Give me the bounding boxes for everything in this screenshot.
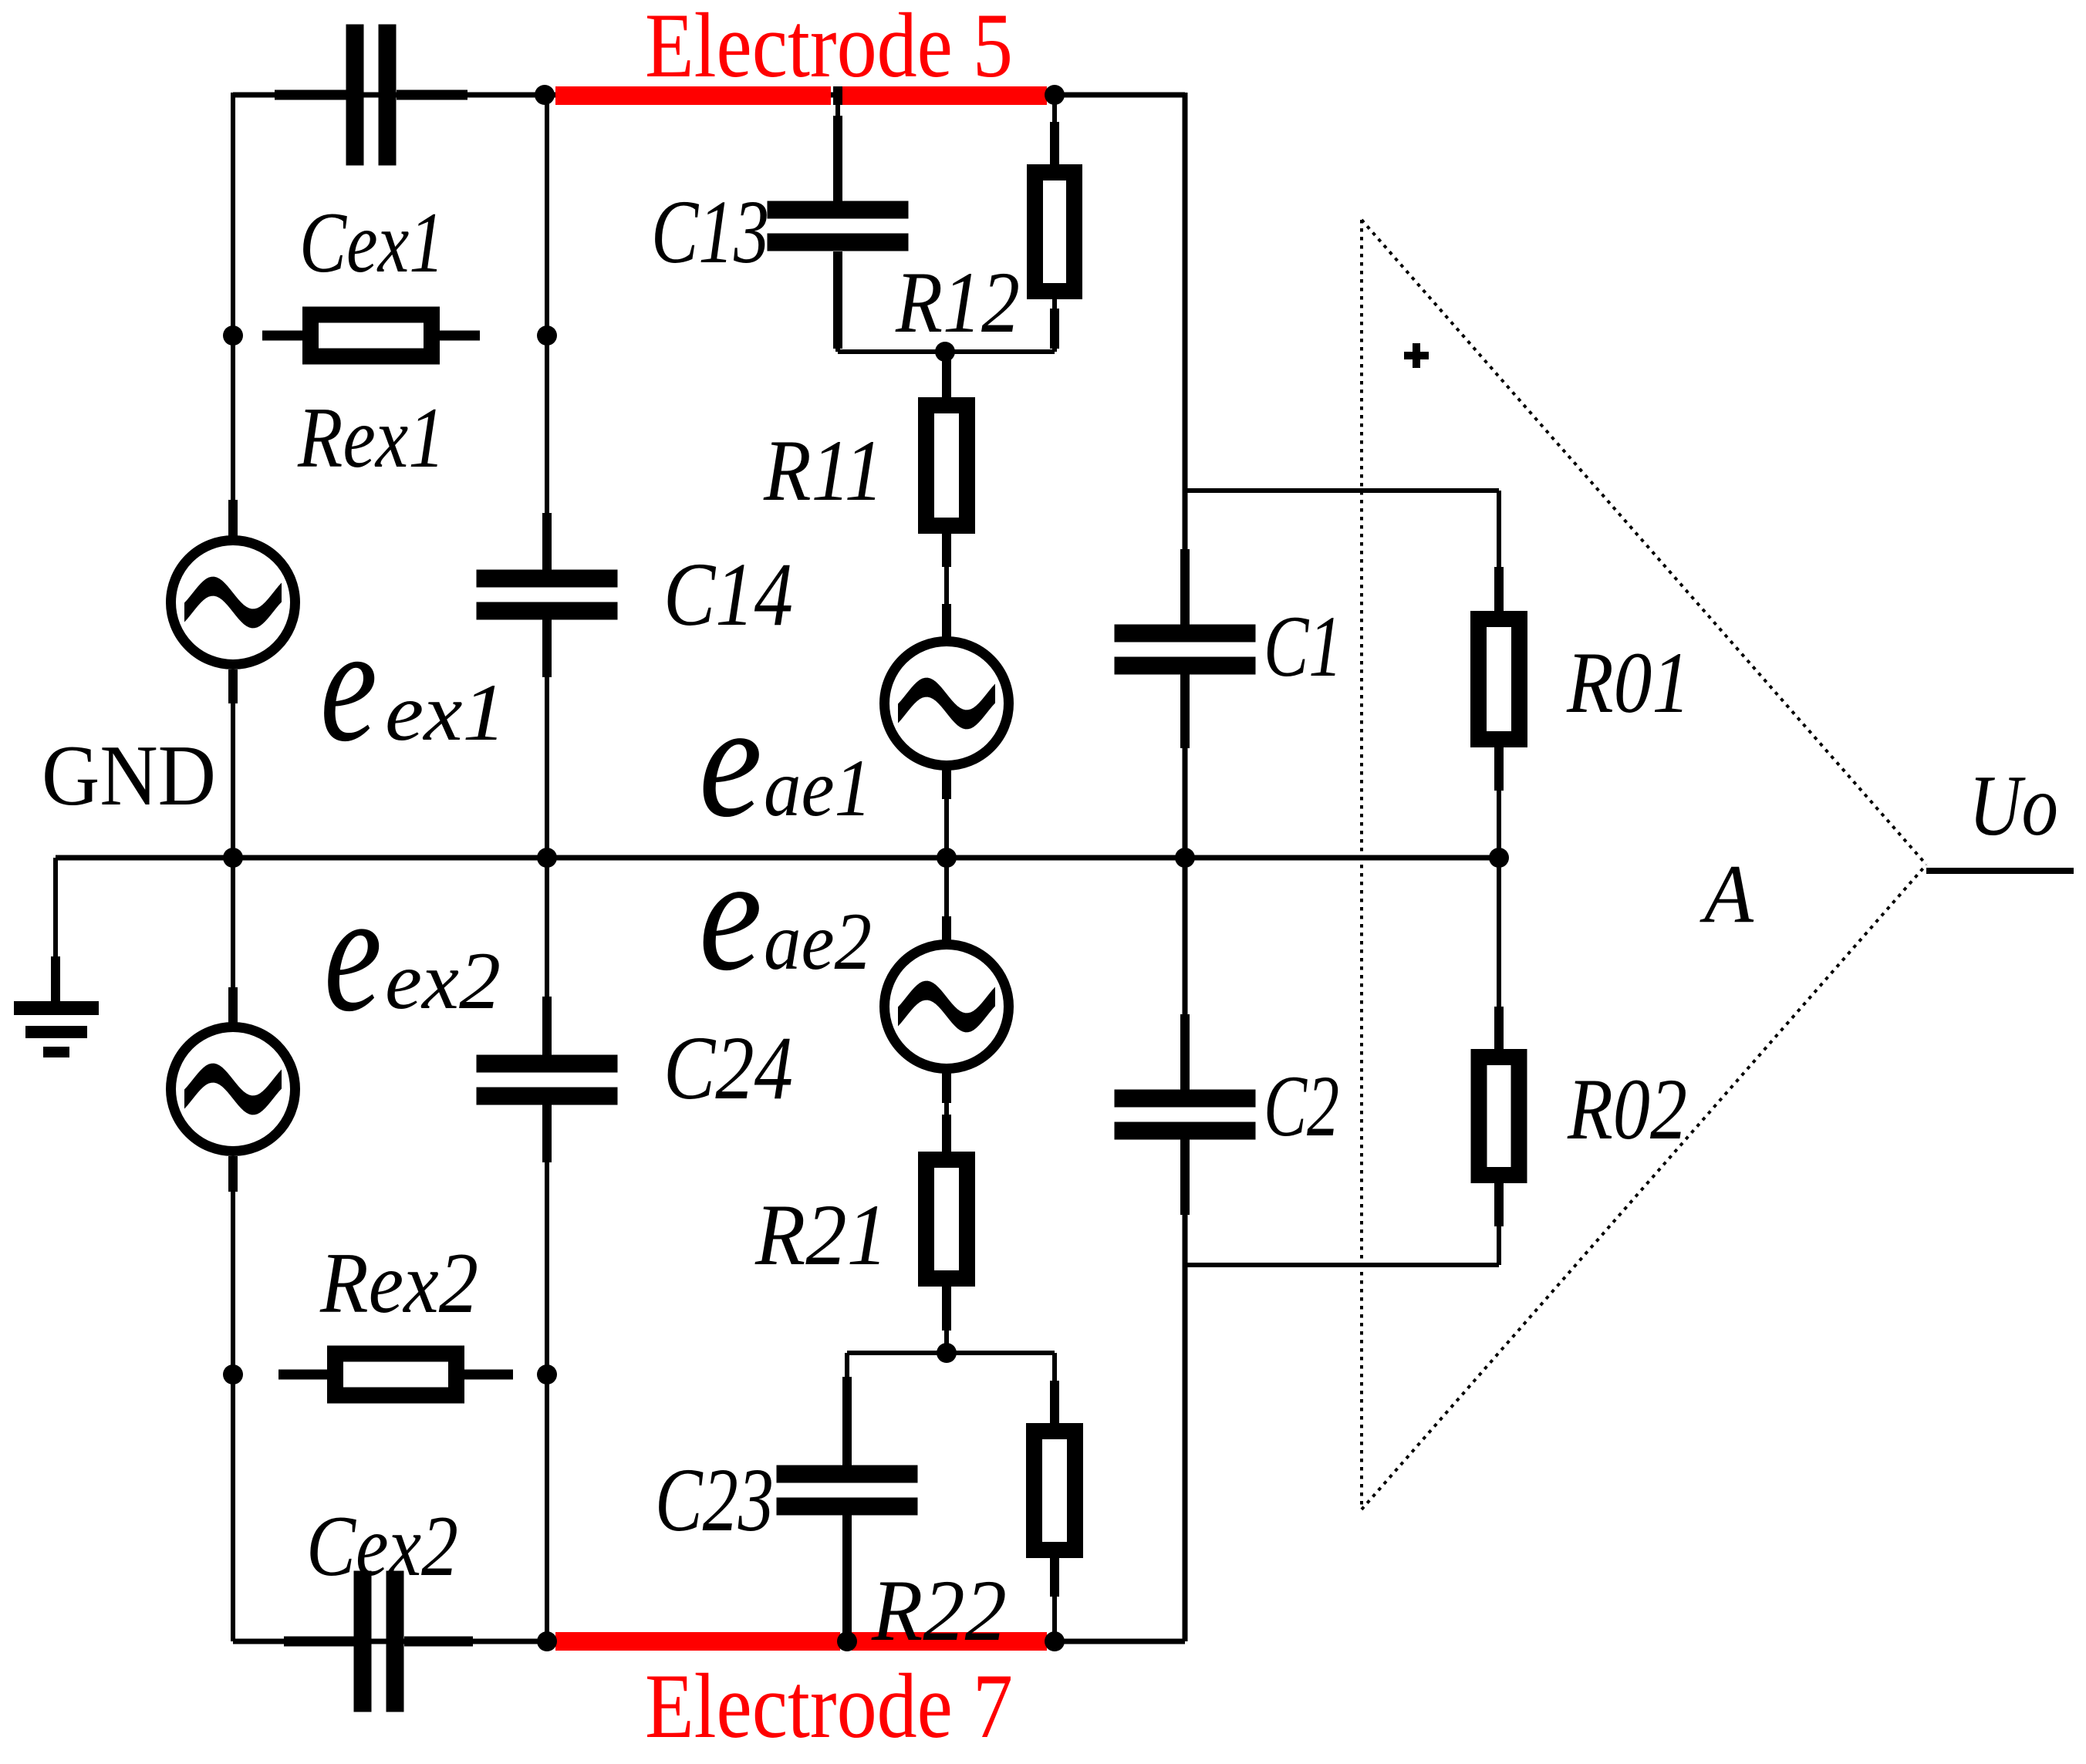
svg-text:R11: R11	[763, 423, 883, 519]
svg-text:R12: R12	[895, 255, 1020, 351]
svg-text:C2: C2	[1264, 1058, 1339, 1155]
svg-text:ex1: ex1	[385, 667, 506, 757]
svg-text:Cex2: Cex2	[306, 1499, 458, 1594]
svg-text:R02: R02	[1567, 1061, 1687, 1158]
svg-text:Electrode 7: Electrode 7	[645, 1654, 1013, 1757]
svg-text:Uo: Uo	[1969, 758, 2058, 854]
svg-text:R01: R01	[1566, 635, 1690, 731]
svg-text:e: e	[699, 823, 762, 1004]
svg-text:ae2: ae2	[764, 896, 872, 987]
svg-text:R21: R21	[754, 1187, 888, 1283]
svg-text:Rex1: Rex1	[297, 390, 445, 486]
svg-text:C1: C1	[1264, 599, 1342, 695]
svg-text:C24: C24	[663, 1017, 793, 1118]
svg-text:GND: GND	[42, 728, 216, 824]
svg-text:Rex2: Rex2	[319, 1236, 478, 1331]
svg-text:Electrode 5: Electrode 5	[645, 0, 1013, 96]
svg-text:Cex1: Cex1	[299, 195, 444, 291]
svg-text:A: A	[1700, 848, 1754, 940]
svg-text:R22: R22	[871, 1563, 1007, 1659]
svg-text:ae1: ae1	[764, 743, 872, 833]
svg-text:e: e	[324, 858, 382, 1047]
svg-text:e: e	[320, 592, 377, 776]
svg-text:C13: C13	[651, 181, 769, 282]
svg-text:C14: C14	[663, 544, 793, 645]
svg-text:C23: C23	[655, 1449, 774, 1550]
svg-text:ex2: ex2	[385, 936, 501, 1026]
